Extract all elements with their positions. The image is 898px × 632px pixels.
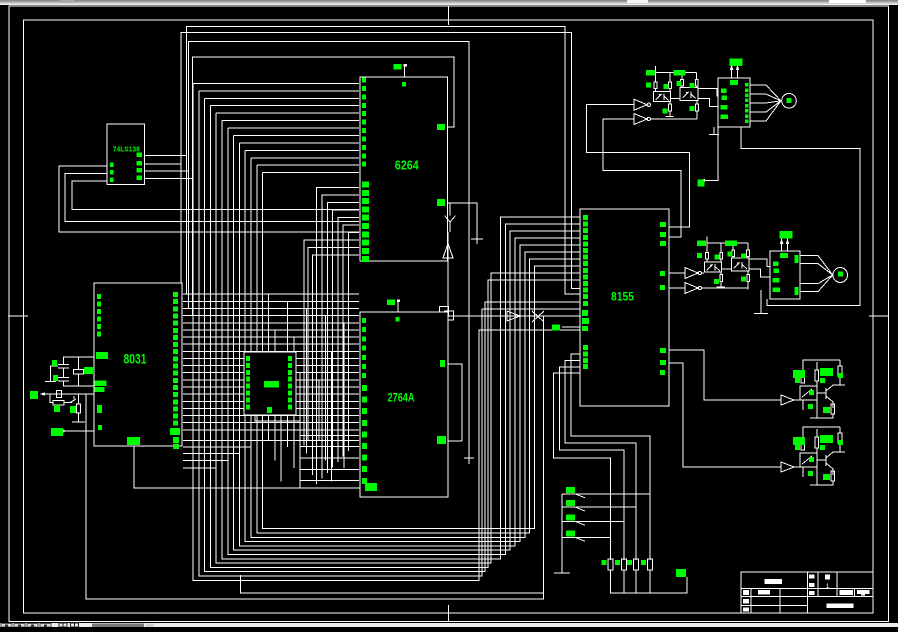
switch common rail to ground <box>561 494 563 573</box>
wire resistor rail <box>611 570 688 593</box>
optocoupler C box <box>800 386 817 400</box>
top centre tick <box>448 6 450 25</box>
IC U3 6264 <box>360 77 447 261</box>
wire joining reset to 8031 <box>85 394 87 446</box>
optocoupler C internals <box>802 389 812 397</box>
wire 74LS138 input loop 2 <box>65 173 359 221</box>
optocoupler cluster B <box>707 242 748 244</box>
crystal labels <box>52 360 57 366</box>
bus weave verticals <box>268 294 270 440</box>
title block row lines <box>741 587 873 589</box>
wire 2764A right pin row <box>448 440 462 442</box>
8031 bottom pin mark <box>127 437 140 445</box>
motor B fan wires <box>800 256 833 275</box>
8031 data/address rows <box>183 293 359 295</box>
wire 8031 left-bottom long rectangle <box>86 316 544 599</box>
wire 8031 ground run <box>134 446 365 488</box>
wire junction to PSEN row <box>446 315 455 317</box>
layout tab <box>92 624 144 628</box>
RST label <box>30 391 38 399</box>
IC U5 latch 74LS373 <box>244 352 296 415</box>
motor A circle <box>782 94 797 109</box>
labels D <box>793 437 805 445</box>
reset resistor R2 <box>53 401 64 406</box>
caps common to ground <box>51 366 59 382</box>
wire inverter D out <box>794 466 800 468</box>
wire 8155 to inverter A2 <box>603 119 681 237</box>
EA pin wire <box>63 430 94 432</box>
inverter C <box>781 395 794 405</box>
IC U6 8155 <box>580 209 669 406</box>
driver B VCC stub <box>781 239 783 251</box>
motor A fan wires <box>750 85 781 101</box>
latch bottom pin <box>267 407 272 413</box>
wire bus run top A <box>186 26 580 294</box>
svg-text:2764A: 2764A <box>388 391 415 405</box>
reset button <box>70 399 76 403</box>
reset lower loop <box>50 394 53 403</box>
resistor RC2 <box>815 370 819 381</box>
wire driver A power loop <box>741 127 860 306</box>
window top toolbar edge strip <box>0 0 898 5</box>
main bus 6264 fan / bottom staircase / 8155 fan <box>193 82 359 84</box>
latch bottom wire <box>255 415 300 421</box>
driver IC A box <box>718 78 750 127</box>
resistor RD1 <box>801 439 805 450</box>
6264 right pin mark 2 <box>437 199 445 206</box>
ground C <box>816 400 818 418</box>
svg-text:6264: 6264 <box>395 158 420 173</box>
X junction symbol <box>532 311 544 322</box>
svg-text:1: 1 <box>826 583 830 590</box>
wire 74LS138 input loop 3 <box>72 181 359 210</box>
switch S2 <box>566 500 575 506</box>
title block table <box>741 572 873 613</box>
buffer symbol on row <box>507 311 520 321</box>
driver IC B box <box>770 251 800 299</box>
crystal circuit top wire <box>64 357 95 364</box>
junction squares node <box>440 307 449 316</box>
wire 8155 to inverter D <box>669 363 781 467</box>
svg-text:8155: 8155 <box>611 290 634 304</box>
inverter B1 <box>685 268 698 279</box>
reset ground <box>72 421 85 423</box>
EA label <box>51 428 63 436</box>
resistor RC3 <box>831 404 835 414</box>
driver A gnd stub <box>713 127 715 135</box>
wire inverter B2 to opto <box>702 288 749 290</box>
wire 8155 to inverter A1 <box>586 105 689 227</box>
wire inverter A2 to opto <box>651 118 698 120</box>
wire bus run top D <box>192 57 454 316</box>
driver A VCC stub <box>731 65 733 78</box>
capacitor C2 <box>58 377 69 379</box>
reset resistor R1 <box>57 391 62 398</box>
wire opto A to driver 2 <box>698 99 718 107</box>
tab nav buttons <box>1 624 12 628</box>
crystal bottom wire <box>64 381 95 386</box>
wire opto A to driver 1 <box>698 89 718 96</box>
reset resistor R3 <box>77 394 79 404</box>
VCC label driver B <box>780 231 793 239</box>
reset labels <box>54 405 60 412</box>
wire 8155 labelled pin stub <box>552 325 560 331</box>
wire 8155 to inverter B1 <box>669 272 685 274</box>
2764A bottom-left node <box>365 483 377 491</box>
transistor QC <box>817 392 826 394</box>
resistor RC1 <box>801 372 805 383</box>
zener DD <box>838 433 842 443</box>
svg-text:8031: 8031 <box>124 351 147 367</box>
keyboard matrix Z wires <box>571 354 650 560</box>
ground symbol below 6264 <box>443 244 453 258</box>
2764A right pin marks <box>440 360 445 367</box>
wire 74LS138 input loop 1 <box>59 166 359 232</box>
optocoupler D box <box>800 453 817 467</box>
2764A lower pin rows <box>300 434 359 436</box>
2764A top pin mark <box>387 300 395 306</box>
wire bus run top B <box>181 33 580 302</box>
driver B pin marks <box>780 253 788 258</box>
ground D <box>816 467 818 485</box>
wire 6264 right pin to T stub <box>447 203 477 244</box>
motor B circle <box>833 268 848 283</box>
wire terminal stub T below 2764A <box>464 457 474 459</box>
inverter B2 <box>685 283 698 294</box>
wire 74LS138 outputs <box>145 155 186 157</box>
IC U1 74LS138 <box>107 124 145 185</box>
switch S1 <box>566 487 575 493</box>
wire inverter C out <box>794 399 800 401</box>
right centre tick <box>869 315 889 317</box>
wire bus run top C <box>188 41 469 458</box>
wire 2764A OE to T stub <box>448 364 462 441</box>
wire opto B to driver 1 <box>749 259 770 266</box>
bottom centre tick <box>448 605 450 621</box>
VCC label driver A <box>730 59 743 67</box>
2764A top stub <box>397 300 399 312</box>
labels C <box>793 370 805 378</box>
optocoupler D internals <box>802 456 812 464</box>
6264 top pin stub <box>404 65 406 78</box>
reset RST wire <box>41 393 94 395</box>
resistor RD2 <box>815 437 819 448</box>
wire 8155 to inverter B2 <box>669 287 685 289</box>
wire bottom long run 2 <box>241 575 544 593</box>
wire inverter B1 to opto <box>702 272 705 274</box>
wire opto B to driver 2 <box>749 269 770 277</box>
resistor RD3 <box>831 471 835 481</box>
svg-text:74LS138: 74LS138 <box>113 147 140 154</box>
left centre tick <box>8 315 28 317</box>
switch S4 <box>566 530 575 536</box>
window bottom model-tab strip <box>0 623 898 627</box>
inverter A1 <box>634 99 647 110</box>
wire VCC node down to 2764A corner <box>447 232 449 312</box>
wire 8155 to inverter C <box>669 350 781 400</box>
6264 right pin WE <box>437 124 445 130</box>
zener DC <box>838 366 842 376</box>
inverter A2 <box>634 114 647 125</box>
driver A pin marks <box>730 80 738 85</box>
IC U2 8031 <box>94 283 182 446</box>
IC U4 2764A <box>360 312 448 497</box>
optocoupler cluster A <box>656 71 697 73</box>
wire PSEN row <box>455 315 580 317</box>
8031 lower rows <box>183 439 359 441</box>
transistor QD <box>817 459 826 461</box>
crystal Y1 <box>78 357 80 369</box>
driver B gnd stub <box>760 290 762 314</box>
VCC label node <box>676 569 686 577</box>
inverter D <box>781 462 794 472</box>
6264 top pin mark <box>394 64 402 70</box>
model tab text 模型 <box>59 623 67 627</box>
title block text blobs <box>765 579 782 584</box>
data bus verticals from 6264 lower pins <box>317 188 359 484</box>
capacitor C1 <box>58 364 69 366</box>
wire 6264 right to VCC <box>447 203 450 216</box>
title block column lines <box>750 588 752 613</box>
pullup resistors <box>608 559 613 570</box>
VCC arrow symbol right of 6264 <box>445 216 456 222</box>
switch S3 <box>566 514 575 520</box>
wire driver A down to label <box>705 127 718 180</box>
